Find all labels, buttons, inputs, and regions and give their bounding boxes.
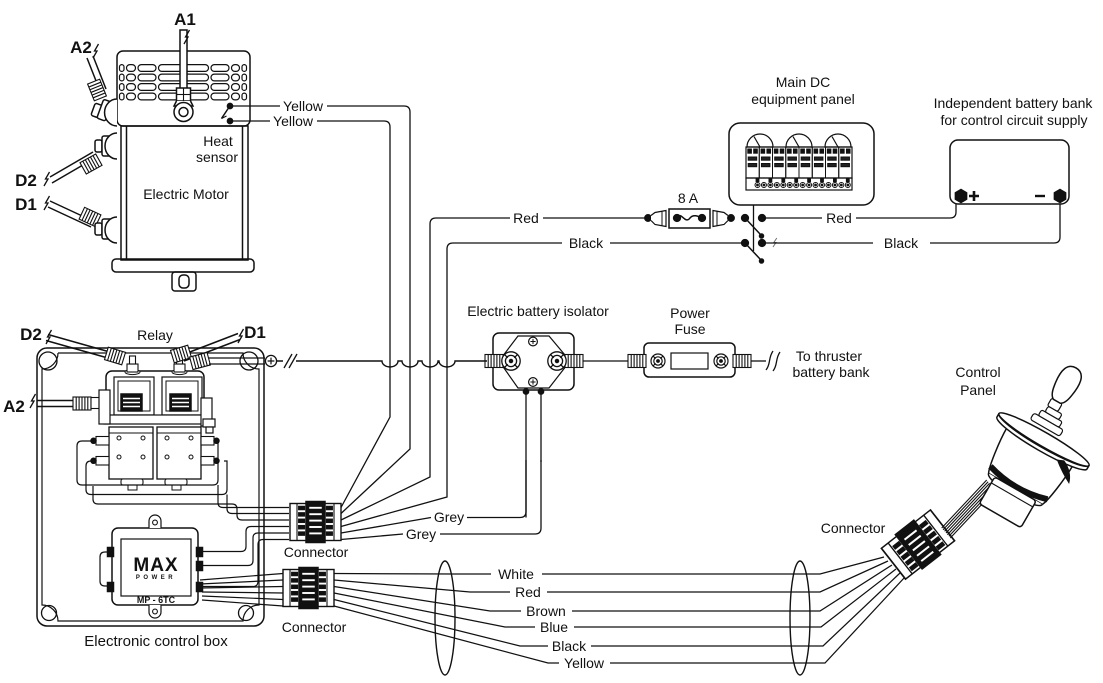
wire to thruster battery — [751, 360, 766, 362]
MAX POWER control unit U3 — [108, 515, 203, 618]
svg-text:equipment panel: equipment panel — [751, 91, 855, 107]
wire red (harness) — [334, 561, 888, 592]
svg-text:Fuse: Fuse — [674, 321, 705, 337]
wire loop A to connector pin1 — [218, 485, 289, 508]
cable sheath ellipse left — [435, 561, 455, 675]
svg-text:D1: D1 — [15, 195, 37, 214]
wire yellow 2 (lower) — [233, 121, 390, 508]
svg-text:Black: Black — [569, 235, 604, 251]
wire grey 2 — [341, 460, 541, 540]
bus break mark — [284, 354, 297, 368]
terminal A2 (relay) — [30, 390, 110, 424]
independent battery bank B1 — [950, 140, 1069, 204]
svg-text:Black: Black — [884, 235, 919, 251]
wire MAX left U — [100, 552, 112, 586]
node bus + — [265, 355, 276, 366]
motor body — [121, 126, 248, 260]
svg-text:Connector: Connector — [821, 520, 886, 536]
svg-text:Electric battery isolator: Electric battery isolator — [467, 303, 609, 319]
terminal D1 (relay) — [170, 329, 243, 363]
svg-text:Grey: Grey — [434, 509, 464, 525]
wire isolator to power fuse — [583, 360, 633, 362]
heat sensor switch — [222, 103, 233, 123]
cable sheath ellipse right — [790, 561, 810, 675]
wire loop C to connector pin3 — [93, 486, 289, 520]
wire black (harness) — [334, 573, 900, 646]
electric battery isolator U2 — [485, 333, 583, 390]
svg-text:Connector: Connector — [284, 544, 349, 560]
wire MAX R2 to connector pin5 — [198, 533, 289, 566]
wire brown — [334, 565, 892, 611]
wire white — [334, 557, 884, 574]
connector J2 (lower) — [283, 568, 334, 609]
svg-text:Red: Red — [515, 584, 541, 600]
relay side nubs — [91, 437, 219, 466]
svg-text:White: White — [498, 566, 534, 582]
svg-text:sensor: sensor — [196, 149, 238, 165]
motor top vent section — [117, 51, 250, 126]
wire relay loop B — [86, 461, 227, 495]
electronic control box enclosure — [37, 348, 264, 626]
wire yellow 1 (upper) — [233, 106, 410, 514]
relay coil bolts — [127, 356, 185, 372]
relay K1/K2 assembly — [104, 369, 206, 490]
terminal A1 — [174, 30, 193, 122]
switch S1 (red line) — [742, 215, 766, 238]
relay right bracket — [201, 398, 215, 433]
connector J3 (control panel) — [880, 508, 956, 581]
wire bundle joystick to J3 — [942, 480, 996, 538]
svg-text:Yellow: Yellow — [273, 113, 314, 129]
svg-text:A1: A1 — [174, 10, 196, 29]
svg-text:MAX: MAX — [133, 555, 178, 576]
svg-text:D2: D2 — [15, 171, 37, 190]
wire relay loop A — [77, 441, 218, 485]
svg-text:MP - 6TC: MP - 6TC — [137, 595, 176, 605]
wire grey 1 vertical — [525, 392, 527, 518]
svg-text:Electronic control box: Electronic control box — [84, 633, 228, 650]
wire MAX R3 to connector pin6 — [198, 540, 289, 587]
svg-text:Brown: Brown — [526, 603, 566, 619]
svg-text:Relay: Relay — [137, 327, 173, 343]
wire main bus — [277, 361, 488, 367]
svg-text:Black: Black — [552, 638, 587, 654]
fuse F1 8A — [645, 209, 734, 228]
svg-text:Panel: Panel — [960, 382, 996, 398]
svg-text:Yellow: Yellow — [283, 98, 324, 114]
panel breakers — [746, 147, 852, 188]
svg-text:Electric Motor: Electric Motor — [143, 186, 229, 202]
svg-text:D2: D2 — [20, 325, 42, 344]
svg-text:Yellow: Yellow — [564, 655, 605, 671]
power fuse F2 — [628, 343, 751, 377]
svg-text:Blue: Blue — [540, 619, 568, 635]
switch S2 (black line) — [742, 238, 777, 263]
svg-text:for control circuit supply: for control circuit supply — [940, 112, 1087, 128]
node isolator bottom taps — [523, 389, 528, 394]
break to thruster — [766, 351, 780, 371]
svg-text:To thruster: To thruster — [796, 348, 862, 364]
svg-text:Grey: Grey — [406, 526, 436, 542]
svg-text:battery bank: battery bank — [792, 364, 870, 380]
wires MAX to connector J2 — [200, 574, 283, 607]
wire grey 1 — [341, 460, 526, 533]
wire loop B to connector pin2 — [227, 495, 289, 514]
svg-text:Independent battery bank: Independent battery bank — [934, 95, 1094, 111]
svg-text:Connector: Connector — [282, 619, 347, 635]
wire red (control circuit) — [341, 200, 956, 520]
wire panel feed — [753, 190, 755, 251]
wire relay to bus (cable with ring) — [190, 352, 265, 369]
terminal D2 (motor) — [44, 133, 117, 186]
motor base — [112, 259, 254, 272]
svg-text:8 A: 8 A — [678, 190, 699, 206]
wire grey 2 vertical — [540, 392, 542, 463]
svg-text:A2: A2 — [70, 38, 92, 57]
connector J1 (upper) — [290, 502, 341, 543]
svg-text:D1: D1 — [244, 323, 266, 342]
terminal A2 (motor) — [87, 44, 117, 126]
svg-text:POWER: POWER — [136, 575, 176, 581]
wire MAX R1 to connector pin4 — [198, 527, 289, 552]
svg-text:Main DC: Main DC — [776, 74, 830, 90]
motor foot — [172, 272, 196, 291]
terminal D2 (relay) — [46, 330, 126, 365]
wire yellow (harness) — [334, 577, 905, 663]
svg-text:A2: A2 — [3, 397, 25, 416]
svg-text:Red: Red — [513, 210, 539, 226]
wire blue — [334, 569, 896, 627]
svg-text:Power: Power — [670, 305, 710, 321]
svg-text:Control: Control — [955, 364, 1000, 380]
terminal D1 (motor) — [44, 196, 117, 243]
wire black (control circuit) — [341, 200, 1060, 527]
control panel joystick — [955, 346, 1103, 542]
electric motor M1 — [112, 51, 254, 291]
svg-text:Red: Red — [826, 210, 852, 226]
main DC equipment panel — [729, 123, 874, 205]
svg-text:Heat: Heat — [203, 133, 233, 149]
